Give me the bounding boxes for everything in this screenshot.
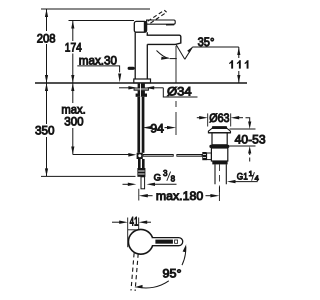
svg-text:95°: 95° <box>163 267 182 281</box>
faucet raised lever (dashed) <box>148 10 167 23</box>
drain bottom nut <box>212 161 227 164</box>
deck line <box>35 82 247 84</box>
faucet body <box>135 32 147 79</box>
hose coupling nut <box>137 168 145 177</box>
plan view lever handle <box>152 238 183 246</box>
svg-text:Ø63: Ø63 <box>209 111 229 125</box>
faucet cartridge cap <box>134 21 146 32</box>
faucet mounting nut <box>134 88 149 91</box>
dimension 174 line <box>72 21 74 42</box>
svg-text:40-53: 40-53 <box>235 132 266 146</box>
faucet lever bar <box>147 20 176 24</box>
svg-text:4: 4 <box>255 174 259 183</box>
35 degree angle leg right with arrow <box>185 47 193 59</box>
cartridge pivot dark band <box>144 22 147 32</box>
white slits in mounting stack <box>135 84 149 97</box>
drain pop-up rod fitting <box>202 152 206 160</box>
dimension 111 line <box>238 47 240 58</box>
drain neck <box>212 133 227 145</box>
G1 1/4 leader arrow and underline <box>227 180 236 183</box>
svg-text:1: 1 <box>249 169 253 178</box>
supply hose lower section <box>138 159 145 168</box>
dimension max.180 left extension <box>138 189 140 201</box>
drain lower body <box>211 148 227 161</box>
dimension max.180 right extension <box>218 187 220 201</box>
dimension 40-53 bottom reference line <box>229 145 255 147</box>
dimension 94 line <box>148 127 150 129</box>
label max.30 underline leader <box>77 66 119 73</box>
G3/8 left leader arrow <box>123 183 130 185</box>
G3/8 right leader arrow and underline <box>147 183 156 186</box>
drain flange top <box>212 126 227 128</box>
dimension 350 arrows <box>45 83 48 91</box>
label max.30 arrow to deck <box>118 74 121 83</box>
svg-text:8: 8 <box>171 174 176 183</box>
svg-text:174: 174 <box>65 41 82 55</box>
faucet base <box>134 79 151 83</box>
35 degree angle leg left <box>176 45 185 60</box>
svg-text:94: 94 <box>150 121 164 135</box>
dimension 40-53 up arrow <box>248 146 251 154</box>
svg-text:max.180: max.180 <box>156 189 204 203</box>
faucet raised lever tip <box>164 10 166 12</box>
dimension 40-53 top reference line <box>230 128 256 130</box>
svg-text:3: 3 <box>163 169 168 178</box>
drain flange skirt <box>208 129 230 133</box>
dimension 208 arrows <box>45 9 48 17</box>
dimension 94 arrows <box>143 126 152 129</box>
dimension max.180 line and arrows <box>139 194 148 197</box>
plan view lever inner bar <box>155 240 173 244</box>
supply hose column below deck <box>137 97 144 153</box>
O34 leader corner <box>163 88 197 97</box>
dimension max.300 bottom reference line with arrow to rod joint <box>73 154 130 156</box>
faucet lever tip shading <box>166 24 174 26</box>
dimension 174 arrows <box>71 21 74 29</box>
faucet horseshoe washer <box>136 94 147 97</box>
pop-up rod joint at faucet <box>137 153 143 159</box>
spout outlet extension line for 94 <box>175 46 177 135</box>
label 35 degrees underline <box>193 46 239 48</box>
dimension 111 arrows <box>237 47 240 55</box>
pop-up pull knob on body rear <box>128 67 135 70</box>
dimension max.300 line <box>72 83 74 103</box>
dimension 350 bottom reference line <box>41 175 136 177</box>
O63 dashes to 40-53 arrow stem <box>238 117 243 119</box>
svg-text:Ø34: Ø34 <box>167 85 192 99</box>
pop-up rod to drain <box>143 154 174 157</box>
plan view rotated lever dashed <box>131 253 138 291</box>
drain tailpipe G1 1/4 <box>215 164 226 184</box>
plan view faucet body circle <box>128 229 153 254</box>
dimension 208 top reference line <box>41 8 150 10</box>
dimension 208 line <box>46 9 48 31</box>
faucet spout <box>147 35 181 44</box>
dimension 350 line <box>46 83 48 124</box>
95 degree swing arc <box>182 247 186 266</box>
hose tail G3/8 <box>141 177 145 189</box>
dimension O63 line right <box>231 116 240 119</box>
dimension 111 text <box>229 60 249 68</box>
svg-text:350: 350 <box>35 124 55 138</box>
35 degree angle arc <box>157 51 169 59</box>
svg-text:G: G <box>154 173 161 184</box>
svg-text:41: 41 <box>130 215 139 229</box>
plan view dimension 41 <box>112 221 120 223</box>
dimension max.300 arrows <box>71 83 74 91</box>
faucet shank middle <box>138 91 145 94</box>
faucet shank below deck <box>138 84 145 88</box>
dimension 174 top reference line <box>69 20 135 22</box>
dimension arrows for O34 at shank <box>119 87 130 89</box>
35 degree horizontal tick <box>170 58 177 60</box>
svg-text:300: 300 <box>64 115 84 129</box>
svg-text:G1: G1 <box>237 171 248 182</box>
95 degree arc arrowheads <box>183 244 187 252</box>
dimension O63 line left <box>197 117 202 119</box>
drain centerline dashed <box>219 165 221 193</box>
drain O-ring <box>209 145 229 148</box>
plan view 41 extension lines <box>127 218 129 248</box>
dimension 40-53 down arrow <box>248 122 251 130</box>
svg-text:208: 208 <box>37 31 56 45</box>
